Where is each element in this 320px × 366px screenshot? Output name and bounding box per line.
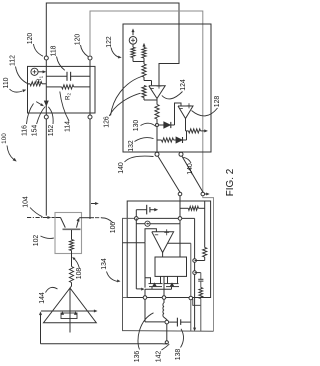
svg-text:136: 136 xyxy=(134,351,141,363)
svg-text:152: 152 xyxy=(48,125,55,137)
svg-text:126: 126 xyxy=(104,116,111,128)
svg-text:112: 112 xyxy=(10,55,17,66)
svg-text:132: 132 xyxy=(128,140,135,152)
svg-text:120: 120 xyxy=(75,34,82,46)
svg-text:154: 154 xyxy=(32,125,39,137)
svg-text:110: 110 xyxy=(3,77,10,88)
svg-text:FIG. 2: FIG. 2 xyxy=(225,169,236,196)
svg-text:140: 140 xyxy=(187,163,194,175)
svg-text:122: 122 xyxy=(106,36,113,48)
svg-text:102: 102 xyxy=(33,235,40,247)
svg-text:138: 138 xyxy=(175,349,182,361)
svg-text:114: 114 xyxy=(65,121,72,132)
svg-text:100: 100 xyxy=(1,133,8,144)
svg-text:128: 128 xyxy=(214,96,221,108)
svg-text:142: 142 xyxy=(156,351,163,363)
svg-text:118: 118 xyxy=(51,45,58,56)
svg-text:120: 120 xyxy=(27,33,34,45)
svg-text:130: 130 xyxy=(133,120,140,132)
svg-text:116: 116 xyxy=(22,125,29,136)
svg-text:106: 106 xyxy=(110,222,117,234)
svg-text:144: 144 xyxy=(39,292,46,304)
svg-text:140: 140 xyxy=(118,162,125,174)
svg-text:124: 124 xyxy=(180,79,187,91)
svg-text:108: 108 xyxy=(76,268,83,280)
svg-text:134: 134 xyxy=(101,258,108,270)
svg-text:104: 104 xyxy=(23,196,30,208)
